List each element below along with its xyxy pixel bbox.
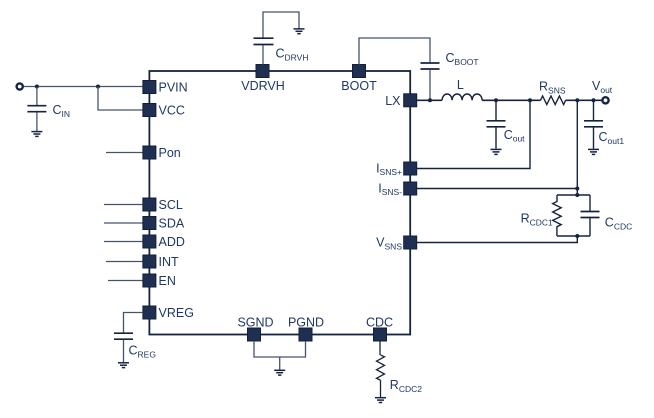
resistor R_CDC2 <box>377 355 385 380</box>
wire R_CDC2 to ground <box>380 380 382 397</box>
capacitor C_out <box>487 100 506 148</box>
pin EN <box>143 274 176 288</box>
label V_SNS <box>376 236 402 252</box>
wire input rail <box>24 86 143 88</box>
pin VREG <box>143 306 194 320</box>
wire LX to inductor <box>417 99 442 101</box>
wire RC top rail <box>557 194 590 196</box>
node RC bottom junction <box>575 234 579 238</box>
wire SGND/PGND ground net <box>254 341 306 357</box>
label L <box>457 78 464 92</box>
node V_out rail junction <box>575 98 579 102</box>
label R_CDC1 <box>521 212 553 228</box>
capacitor C_REG <box>114 333 133 362</box>
pin I_SNS+ <box>404 162 417 175</box>
label C_CDC <box>605 216 632 232</box>
svg-text:EN: EN <box>159 274 176 288</box>
label I_SNS+ <box>376 161 402 177</box>
svg-text:CDC: CDC <box>366 316 393 330</box>
svg-text:VDRVH: VDRVH <box>241 79 285 93</box>
wire VREG branch <box>124 313 143 333</box>
label C_REG <box>129 344 156 360</box>
svg-text:VCC: VCC <box>159 103 185 117</box>
pin V_SNS <box>404 236 417 249</box>
ground (C_IN) <box>31 132 42 137</box>
ground (C_out1) <box>588 149 599 154</box>
resistor R_SNS <box>541 96 566 105</box>
wire ADD stub <box>104 241 143 243</box>
label R_CDC2 <box>390 378 422 394</box>
svg-text:L: L <box>457 78 464 92</box>
wire EN stub <box>108 280 143 282</box>
label C_BOOT <box>446 51 479 67</box>
pin LX <box>385 94 416 108</box>
svg-text:BOOT: BOOT <box>341 79 377 93</box>
node C_BOOT junction <box>428 98 432 102</box>
svg-text:VREG: VREG <box>159 306 194 320</box>
wire RC bottom rail <box>557 235 590 237</box>
inductor L <box>442 94 482 100</box>
wire CDC stub <box>379 341 381 355</box>
label V_out <box>592 79 613 95</box>
pin SGND <box>237 316 273 342</box>
svg-text:SDA: SDA <box>159 216 185 230</box>
node C_out junction <box>494 98 498 102</box>
resistor R_CDC1 <box>553 195 562 236</box>
pin ADD <box>143 235 185 249</box>
pin VCC <box>143 103 185 117</box>
svg-text:PGND: PGND <box>288 316 324 330</box>
pin PGND <box>288 316 324 342</box>
ground (C_REG) <box>118 363 129 368</box>
wire inductor to R_SNS <box>482 99 540 101</box>
wire INT stub <box>106 261 143 263</box>
node I_SNS- junction <box>575 187 579 191</box>
wire I_SNS+ net <box>417 100 530 168</box>
ground (C_out) <box>491 149 502 154</box>
svg-text:SGND: SGND <box>237 316 273 330</box>
wire VCC branch <box>98 87 143 111</box>
svg-text:PVIN: PVIN <box>159 80 188 94</box>
pin BOOT <box>341 65 377 94</box>
label I_SNS- <box>378 181 402 197</box>
terminal V_out <box>602 97 608 103</box>
wire SCL stub <box>104 204 143 206</box>
pin I_SNS- <box>404 182 417 195</box>
label C_out1 <box>599 130 625 146</box>
capacitor C_DRVH <box>254 12 300 65</box>
node C_out1 junction <box>592 98 596 102</box>
ground (C_DRVH) <box>294 29 305 34</box>
wire Pon stub <box>106 152 143 154</box>
capacitor C_BOOT <box>359 38 440 100</box>
node C_IN tap <box>35 85 39 89</box>
pin SCL <box>143 198 183 212</box>
svg-text:ADD: ADD <box>159 235 185 249</box>
label C_out <box>504 128 525 144</box>
pin INT <box>143 255 179 269</box>
wire I_SNS- net <box>417 188 578 190</box>
input terminal <box>17 83 23 89</box>
svg-text:LX: LX <box>385 94 401 108</box>
svg-text:INT: INT <box>159 255 180 269</box>
node RC top junction <box>575 193 579 197</box>
node R_SNS left junction <box>528 98 532 102</box>
wire R_SNS to V_out <box>566 99 602 101</box>
node VCC tap <box>96 85 100 89</box>
capacitor C_out1 <box>584 100 603 148</box>
svg-text:SCL: SCL <box>159 198 183 212</box>
wire V_out to RC branch <box>576 100 578 195</box>
pin SDA <box>143 216 185 230</box>
label C_IN <box>53 103 71 119</box>
ground (SGND/PGND) <box>274 370 285 375</box>
svg-text:Pon: Pon <box>159 146 181 160</box>
wire V_SNS net <box>417 236 578 243</box>
capacitor C_IN <box>27 87 46 132</box>
pin Pon <box>143 146 181 160</box>
label C_DRVH <box>276 47 309 63</box>
pin CDC <box>366 316 393 342</box>
IC body U1 <box>149 71 410 335</box>
capacitor C_CDC <box>581 195 600 236</box>
pin PVIN <box>143 80 188 94</box>
pin VDRVH <box>241 65 285 94</box>
wire SDA stub <box>104 222 143 224</box>
label R_SNS <box>539 80 566 96</box>
ground (R_CDC2) <box>375 398 386 403</box>
wire ground stem <box>279 357 281 370</box>
